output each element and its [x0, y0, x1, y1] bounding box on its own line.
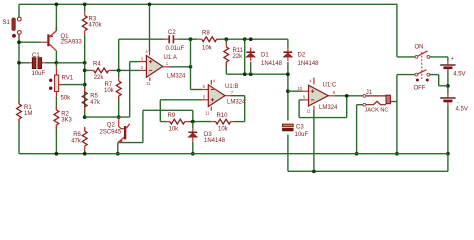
wire pin5 row: [160, 99, 202, 101]
junction battery rail: [446, 152, 450, 156]
capacitor C3 top plate: [282, 124, 293, 127]
resistor R9: [170, 119, 185, 124]
wire R4 left: [85, 69, 90, 71]
wire pin3 row: [130, 61, 140, 63]
pin battery1 top stub: [447, 61, 449, 64]
switch gang link dashed: [421, 52, 423, 79]
wire R8 out / D1 D2 top: [217, 38, 288, 40]
wire R9 left: [160, 121, 166, 123]
junction D1 top: [249, 37, 253, 41]
svg-text:10k: 10k: [169, 127, 180, 133]
wire U1:B output: [231, 95, 245, 97]
resistor R2: [54, 110, 59, 125]
wire R3 top: [84, 4, 86, 11]
arrow Q1 emitter PNP: [50, 34, 53, 37]
svg-text:U1:C: U1:C: [323, 82, 337, 88]
wire U1:A pin4 to V+ rail: [149, 4, 151, 51]
junction R2 rail: [55, 152, 59, 156]
capacitor C3 bottom plate: [282, 128, 293, 131]
pin RV1 wiper stub: [59, 84, 63, 86]
wire R9 to R10: [189, 121, 212, 123]
capacitor C2 left plate: [168, 35, 170, 43]
junction R11 top: [224, 37, 228, 41]
switch OFF contact right: [427, 73, 430, 76]
junction R3/collector node: [83, 61, 87, 65]
svg-text:470k: 470k: [89, 23, 103, 29]
pin battery2 top stub: [447, 94, 449, 97]
junction R9/R10/D3: [191, 120, 195, 124]
svg-text:1M: 1M: [24, 111, 32, 117]
junction S1/base: [17, 40, 21, 44]
wire pin9 short: [299, 99, 302, 101]
wire down to R9/R10 junction: [192, 110, 194, 121]
resistor R7: [116, 81, 121, 96]
wire R11 bottom: [225, 62, 227, 74]
wire OFF down: [438, 75, 440, 86]
svg-text:1N4148: 1N4148: [204, 138, 226, 144]
wire ON left: [397, 56, 415, 58]
junction output/feedback/J1: [345, 94, 349, 98]
diode D2: [284, 51, 293, 53]
pin Q1 emitter: [50, 31, 57, 37]
wire D1 bottom lead: [250, 62, 252, 74]
wire pin5 column: [142, 110, 144, 142]
svg-text:R4: R4: [93, 61, 101, 67]
jack J1 tip line: [366, 95, 386, 97]
resistor R3: [82, 16, 87, 31]
svg-text:R5: R5: [90, 93, 98, 99]
pin RV1 top stub: [55, 67, 57, 75]
svg-text:10: 10: [297, 86, 302, 91]
svg-text:C3: C3: [296, 124, 304, 130]
svg-text:11: 11: [306, 109, 311, 114]
wire bottom 0V rail: [19, 153, 448, 155]
svg-text:J1: J1: [366, 90, 373, 96]
wire V+ rail down to ON switch: [396, 4, 398, 57]
potentiometer RV1 mark bottom: [49, 87, 52, 90]
wire bottom negative rail: [288, 170, 448, 172]
svg-text:22k: 22k: [233, 54, 244, 60]
wire D2 top lead: [287, 39, 289, 48]
wire C1 left: [19, 62, 29, 64]
pin U1:B pin11 stub: [210, 107, 212, 111]
pin U1:A pin4 stub: [149, 52, 151, 56]
switch S1 button bar: [12, 18, 15, 31]
potentiometer RV1 mark top: [49, 79, 52, 82]
svg-text:10uF: 10uF: [295, 132, 309, 138]
svg-text:11: 11: [205, 110, 210, 115]
pin U1:A pin11 stub: [149, 77, 151, 81]
pin battery2 bottom stub: [447, 102, 449, 106]
pin U1:B pin4 stub: [210, 80, 212, 85]
junction R6 rail: [83, 152, 87, 156]
wire U1:C output to J1: [334, 95, 363, 97]
pin U1:A pin2 stub: [140, 69, 146, 71]
junction U1:C pin10 tap: [286, 89, 290, 93]
switch S1 plunger dot: [12, 34, 16, 38]
wire pin9 feedback row: [299, 117, 347, 119]
junction emitter rail: [116, 152, 120, 156]
wire battery middle: [447, 69, 449, 94]
svg-text:S1: S1: [3, 20, 11, 26]
resistor R5: [82, 92, 87, 107]
wire D1 D2 bottom row: [226, 73, 288, 75]
wire R3 bottom column: [84, 35, 86, 63]
resistor R11: [224, 47, 229, 62]
wire pin10 row: [288, 90, 302, 92]
switch S1 bottom contact: [17, 31, 21, 35]
wire C3 column: [287, 74, 289, 120]
resistor R6: [82, 131, 87, 146]
pin C2 left stub: [165, 38, 170, 40]
junction D2 bottom row: [286, 72, 290, 76]
wire Q2 collector to U1:A pin3 column: [129, 62, 131, 118]
svg-text:2SC945: 2SC945: [100, 130, 122, 136]
wire U1:C pin11 to negative rail: [313, 110, 315, 171]
pin U1:C pin4 stub: [313, 78, 315, 85]
wire J1 pin2 to rail: [356, 105, 358, 154]
svg-text:D2: D2: [298, 52, 306, 58]
diode D3: [188, 131, 197, 133]
svg-text:R8: R8: [202, 30, 210, 36]
junction output/C2 column: [189, 65, 193, 69]
pin R6 top stub: [84, 127, 86, 131]
junction C1 left column: [17, 61, 21, 65]
pin U1:C pin10 stub: [302, 90, 309, 92]
svg-text:10k: 10k: [202, 45, 213, 51]
jack J1 switch contact: [363, 103, 366, 106]
switch ON contact right: [427, 56, 430, 59]
junction battery tap: [446, 84, 450, 88]
wire R5R6 junction to collector column: [85, 116, 130, 118]
junction R5/R6: [83, 115, 87, 119]
svg-text:4.5V: 4.5V: [453, 71, 465, 77]
svg-text:Q2: Q2: [107, 123, 116, 129]
pin Q2 base lead: [119, 117, 124, 129]
switch OFF contact left: [415, 73, 418, 76]
wire U1:A output: [170, 66, 191, 68]
pin C1 left stub: [29, 62, 32, 64]
battery BT2 negative plate: [443, 100, 452, 103]
junction emitter rail: [55, 2, 59, 6]
wire R2 bottom to rail: [55, 125, 57, 154]
pin U1:A output stub: [163, 66, 170, 68]
resistor R8: [202, 37, 217, 42]
junction out column top: [243, 37, 247, 41]
battery BT2 positive plate: [440, 97, 455, 99]
svg-text:ON: ON: [415, 45, 424, 51]
pin U1:B output stub: [225, 95, 231, 97]
wire Q2 emitter to rail: [117, 142, 119, 153]
svg-text:R6: R6: [73, 132, 81, 138]
svg-text:2SA933: 2SA933: [61, 40, 83, 46]
wire Q1 collector down: [55, 51, 57, 63]
junction collector/C1/RV1: [55, 61, 59, 65]
wire emitter to pin5 column: [118, 142, 143, 144]
wire OFF left: [397, 74, 415, 76]
junction U1:C gnd column: [312, 169, 316, 173]
pin U1:B pin5 stub: [202, 99, 208, 101]
capacitor C1 left plate: [32, 58, 36, 69]
svg-text:3K3: 3K3: [61, 117, 72, 123]
pin C2 right stub: [173, 38, 178, 40]
wire battery bottom to rail: [447, 106, 449, 154]
svg-text:11: 11: [146, 81, 151, 86]
svg-text:47k: 47k: [90, 100, 101, 106]
wire C2 to R8: [178, 38, 198, 40]
wire battery top: [447, 57, 449, 61]
junction D3 rail: [191, 152, 195, 156]
wire Q1 emitter up: [55, 27, 57, 31]
battery BT1 negative plate: [443, 66, 452, 69]
svg-text:R7: R7: [105, 82, 113, 88]
wire RV1 to R2: [55, 97, 57, 110]
op-amp U1:B body: [208, 85, 225, 107]
wire D2 bottom lead: [287, 62, 289, 74]
wire J1 sleeve to column: [390, 101, 397, 103]
resistor R10: [216, 119, 231, 124]
switch S1 top contact: [17, 17, 21, 21]
svg-text:10k: 10k: [218, 127, 229, 133]
junction link column bottom: [243, 72, 247, 76]
pin U1:C pin9 stub: [303, 99, 309, 101]
svg-text:22k: 22k: [94, 75, 105, 81]
svg-text:1N4148: 1N4148: [261, 61, 283, 67]
resistor R1: [17, 104, 22, 119]
pin RV1 wiper stub: [59, 84, 63, 86]
svg-text:R3: R3: [89, 16, 97, 22]
battery BT1 positive plate: [440, 64, 455, 66]
pin Q2 collector: [126, 124, 129, 129]
wire C2 column to pin6: [190, 39, 192, 89]
switch OFF lever: [418, 70, 427, 74]
op-amp U1:C body: [309, 85, 329, 106]
svg-text:LM324: LM324: [319, 105, 338, 111]
wire R10 right: [235, 121, 245, 123]
wire R4 right to pin2: [112, 69, 140, 71]
wire R1 bottom to rail: [18, 119, 20, 154]
svg-text:C2: C2: [168, 30, 176, 36]
wire RV1 top: [55, 63, 57, 67]
junction C2/R8/feedback: [189, 37, 193, 41]
arrow Q2 emitter NPN: [118, 139, 122, 142]
wire pin6 row: [191, 89, 203, 91]
svg-text:U1:A: U1:A: [164, 55, 177, 61]
wire R8 node to diode bottom row: [244, 39, 246, 74]
wire ON right to battery: [430, 56, 448, 58]
wire pin5 to R9 left: [159, 100, 161, 122]
wire R3 column down through R4 tap: [84, 63, 86, 117]
pin Q1 base stub: [41, 41, 48, 43]
wire rail link down: [447, 154, 449, 172]
pin U1:B pin6 stub: [202, 89, 208, 91]
op-amp U1:A body: [146, 56, 162, 78]
switch OFF pole dot left: [416, 79, 419, 82]
svg-text:JACK NC: JACK NC: [365, 107, 389, 113]
transistor Q2 base bar: [124, 126, 126, 139]
wire collector node to R3 column: [56, 62, 84, 64]
pin Q1 collector: [50, 44, 57, 50]
junction R7/base/R5R6: [117, 115, 121, 119]
svg-text:+: +: [451, 56, 454, 62]
svg-text:47k: 47k: [71, 138, 82, 144]
junction R4/R7/C2 node: [117, 69, 121, 73]
junction D1 bottom: [249, 72, 253, 76]
svg-text:C1: C1: [32, 53, 40, 59]
wire emitter net to D3 column: [143, 109, 193, 111]
switch ON contact left: [415, 56, 418, 59]
wire S1 to Q1 base: [19, 41, 41, 43]
svg-text:RV1: RV1: [62, 76, 74, 82]
wire C2 corner down to R7: [118, 39, 120, 77]
switch ON lever: [418, 51, 428, 56]
junction R4 tap: [83, 69, 87, 73]
pin C1 right stub: [42, 62, 46, 64]
svg-text:LM324: LM324: [227, 100, 246, 106]
wire R6 bottom to rail: [84, 150, 86, 154]
pin U1:C pin11 stub: [313, 106, 315, 110]
jack J1 tip contact: [363, 95, 366, 98]
pin Q2 emitter: [118, 137, 124, 142]
wire top V+ rail: [19, 3, 397, 5]
junction RV1 wiper tap: [83, 83, 87, 87]
capacitor C2 right plate: [172, 35, 174, 43]
pin U1:A pin3 stub: [140, 61, 146, 63]
wire D3 top: [192, 122, 194, 128]
junction R3 rail: [83, 2, 87, 6]
transistor Q1 base bar: [47, 34, 49, 46]
junction OFF column rail: [395, 152, 399, 156]
wire Q1 emitter to V+ rail: [55, 4, 57, 31]
wire U1:B output down: [244, 96, 246, 122]
wire C1 right: [46, 62, 57, 64]
svg-text:50k: 50k: [61, 95, 72, 101]
wire C2 left: [119, 38, 165, 40]
wire OFF column to rail: [396, 75, 398, 154]
junction J1 rail: [355, 152, 359, 156]
wire OFF to battery tap: [439, 85, 448, 87]
wire feedback up to output: [346, 96, 348, 118]
jack J1 sleeve: [386, 95, 390, 104]
wire D3 bottom to rail: [192, 142, 194, 154]
svg-text:R9: R9: [168, 113, 176, 119]
wire wiper to column: [63, 84, 85, 86]
junction pin4 rail: [148, 2, 152, 6]
wire R11 top: [225, 39, 227, 43]
pin RV1 bottom stub: [55, 92, 57, 98]
jack J1 NC switch line: [366, 101, 386, 104]
wire S1 bottom / left column: [18, 35, 20, 105]
svg-text:10k: 10k: [104, 88, 115, 94]
capacitor C1 right plate: [38, 58, 42, 69]
wire J1 pin2 left: [357, 104, 363, 106]
wire C3 bottom to negative rail: [287, 135, 289, 172]
wire pin9 loop down: [298, 100, 300, 118]
wire OFF right: [430, 74, 439, 76]
switch OFF pole dot right: [426, 79, 429, 82]
wire R7 bottom to base node: [118, 97, 120, 118]
svg-text:1N4148: 1N4148: [298, 61, 320, 67]
potentiometer RV1 body: [55, 75, 59, 92]
svg-text:10uF: 10uF: [32, 71, 46, 77]
svg-text:0.01uF: 0.01uF: [166, 46, 185, 52]
wire S1 top lead: [18, 4, 20, 17]
svg-text:LM324: LM324: [167, 73, 186, 79]
diode D1: [246, 51, 255, 53]
svg-text:R10: R10: [217, 113, 229, 119]
svg-text:4.5V: 4.5V: [456, 107, 468, 113]
resistor R4: [94, 68, 109, 73]
svg-text:OFF: OFF: [414, 85, 426, 91]
svg-text:D1: D1: [261, 52, 269, 58]
pin U1:C output stub: [328, 95, 334, 97]
